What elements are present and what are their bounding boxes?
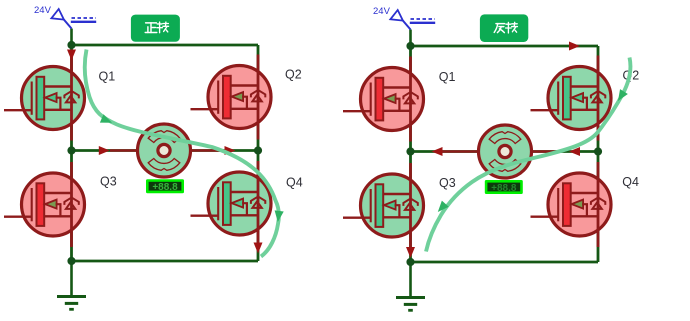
motor pin right R [532,150,560,153]
svg-text:Q1: Q1 [99,70,116,84]
node top R [406,42,414,50]
wire left branch L [70,45,73,261]
transistor Q1 (on) [4,56,85,141]
motor M1 [138,124,191,177]
svg-text:Q4: Q4 [622,175,639,189]
motor pin left R [441,150,480,153]
node top L [67,41,75,49]
current arrow out of motor R [569,147,580,156]
svg-text:Q4: Q4 [286,176,303,190]
wire bottom rail R [411,261,599,264]
svg-text:Q3: Q3 [439,176,456,190]
motor pin left L [110,149,139,152]
current arrow out of motor L [225,146,236,155]
transistor Q1 R (off) [343,57,424,142]
wire mid rail L [72,149,259,152]
transistor Q3 (off) [4,162,85,247]
wire top rail L [72,44,259,47]
svg-text:Q3: Q3 [100,175,117,189]
ground R [396,262,425,310]
transistor Q2 R (on) [531,56,612,141]
wire top rail R [411,45,599,48]
motor M2 [479,125,532,178]
current flow path L [85,50,279,257]
current arrow top rail R [569,42,580,51]
current arrow above bottom node R [406,247,415,258]
button reverse [480,14,528,42]
node bottom L [67,257,75,265]
wire right branch R [597,46,600,262]
rpm display M2 [485,180,523,194]
current flow arrow 2 L [273,210,283,222]
wire bottom rail L [72,260,259,263]
current flow arrow 2 R [434,201,448,215]
node mid-left L [67,146,75,154]
power supply 24V R [373,6,435,46]
current arrow down into Q1 [67,50,76,61]
node bottom R [406,258,414,266]
transistor Q4 (on) [191,161,272,246]
current flow arrow 1 L [100,114,114,127]
node mid-right L [254,146,262,154]
current arrow into node R [432,147,443,156]
button forward [131,15,180,42]
transistor Q4 R (off) [531,162,612,247]
node mid-left R [406,147,414,155]
current arrow below Q4 [254,243,263,254]
transistor Q2 (off) [191,55,272,140]
node mid-right R [594,147,602,155]
wire right branch L [257,45,260,261]
power supply 24V L [34,5,96,45]
motor pin right L [190,149,227,152]
rpm display M1 [146,179,184,193]
wire left branch R [409,46,412,262]
transistor Q3 R (on) [343,163,424,248]
current flow path R [426,58,630,252]
current flow arrow 1 R [614,89,628,103]
svg-text:Q2: Q2 [285,68,302,82]
svg-text:Q1: Q1 [439,70,456,84]
wire mid rail R [411,150,599,153]
ground L [57,261,86,309]
current arrow into motor L [99,146,110,155]
